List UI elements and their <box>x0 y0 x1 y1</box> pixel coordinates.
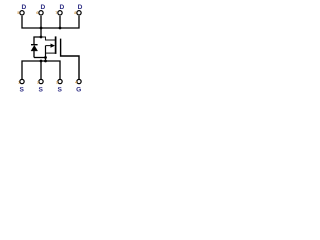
terminal D pin 7 <box>58 11 62 15</box>
terminal S pin 3 <box>58 79 62 83</box>
svg-text:G: G <box>76 87 81 94</box>
wire: drain to diode cathode <box>34 37 41 44</box>
svg-text:S: S <box>38 87 43 94</box>
svg-text:S: S <box>19 87 24 94</box>
junction dot drain bus x60 <box>59 27 62 30</box>
mosfet Q1 channel bar <box>55 36 57 54</box>
junction dot source bus x45.5 <box>44 60 47 63</box>
wire: top drain bus with end drops <box>22 16 79 28</box>
junction dot drain bus x41 <box>40 27 43 30</box>
terminal S pin 2 <box>39 79 43 83</box>
svg-text:D: D <box>60 4 65 11</box>
wire: diode anode to source node <box>34 57 46 59</box>
diode D1 cathode bar <box>31 44 38 46</box>
junction dot source bus x41 <box>40 60 43 63</box>
wire: body/source vertical <box>45 46 47 61</box>
wire: D pin 6 stub <box>40 16 42 28</box>
svg-text:S: S <box>57 87 62 94</box>
terminal D pin 5 <box>20 11 24 15</box>
mosfet Q1 body arrow head <box>51 44 56 48</box>
terminal G pin 4 <box>77 79 81 83</box>
wire: drain jog to mosfet drain stub <box>41 37 55 40</box>
mosfet Q1 gate bar and gate wire <box>61 39 79 79</box>
wire: drain drop to mosfet <box>40 28 42 37</box>
wire: source bus <box>22 61 60 79</box>
wire: D pin 7 stub <box>59 16 61 28</box>
background <box>0 0 115 108</box>
mosfet Q1 source stub <box>46 52 56 54</box>
svg-text:D: D <box>78 4 83 11</box>
wire: diode anode down <box>33 51 35 58</box>
terminal D pin 6 <box>39 11 43 15</box>
junction dot drain node <box>40 36 43 39</box>
terminal S pin 1 <box>20 79 24 83</box>
mosfet Q1 body line with arrow <box>46 45 51 47</box>
junction dot diode-source <box>44 56 47 59</box>
wire: S pin 2 stub <box>40 61 42 79</box>
diode D1 triangle <box>31 45 38 51</box>
terminal D pin 8 <box>77 11 81 15</box>
svg-text:D: D <box>22 4 27 11</box>
svg-text:D: D <box>41 4 46 11</box>
